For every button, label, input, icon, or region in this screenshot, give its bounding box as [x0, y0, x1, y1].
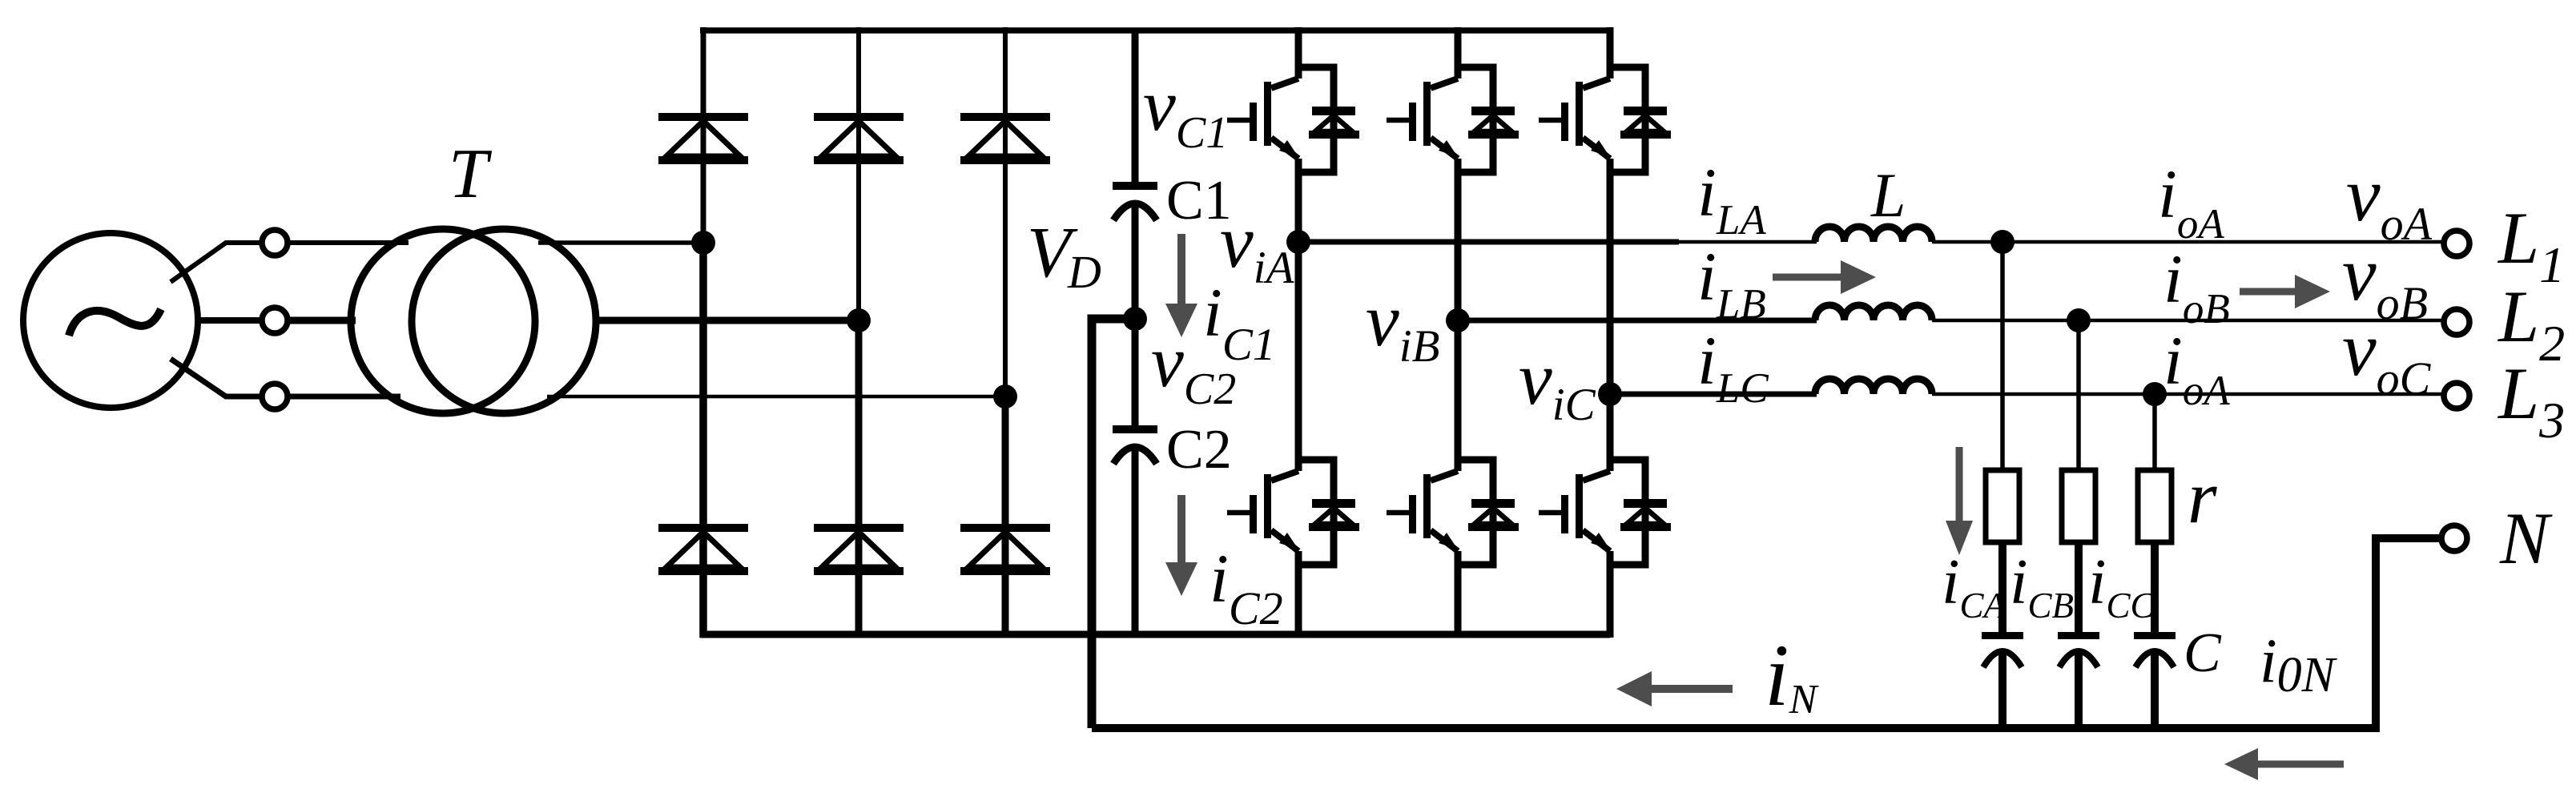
capacitor CA — [1982, 632, 2023, 667]
svg-text:ioA: ioA — [2163, 322, 2230, 414]
svg-text:iC2: iC2 — [1210, 540, 1283, 634]
terminal N — [2441, 525, 2467, 551]
neutral bus — [1092, 724, 2376, 732]
wire capacitor CB to bus — [2075, 654, 2083, 730]
wire phase B to inductor — [1458, 318, 1817, 324]
capacitor CB — [2058, 632, 2099, 667]
arrow iN left — [1616, 671, 1733, 706]
svg-text:C: C — [2184, 622, 2222, 684]
inductor LC — [1815, 379, 1932, 394]
IGBT S5 top phase C — [1539, 67, 1671, 172]
svg-text:ioA: ioA — [2158, 155, 2224, 248]
arrow iLB — [1773, 260, 1876, 294]
diode D4 bottom leg1 — [658, 524, 748, 575]
wire transformer to rectifier phase 3 — [547, 395, 1008, 399]
svg-text:iLB: iLB — [1697, 238, 1766, 328]
svg-text:viC: viC — [1519, 337, 1596, 430]
svg-text:iCA: iCA — [1942, 545, 2006, 626]
IGBT S1 top phase A — [1227, 67, 1359, 172]
wire node A down to resistor — [2000, 242, 2005, 473]
svg-text:VD: VD — [1027, 213, 1101, 298]
capacitor C1 — [1113, 182, 1157, 220]
wire phase A to inductor — [1298, 239, 1679, 245]
svg-text:iLC: iLC — [1697, 322, 1769, 412]
inductor LA — [1815, 227, 1932, 242]
node rectifier phase 3 — [993, 384, 1017, 409]
IGBT S6 bottom phase B — [1387, 460, 1519, 565]
wire node B down to resistor — [2076, 320, 2081, 473]
wire node C to L3 terminal — [2155, 392, 2444, 396]
inverter leg C wire — [1607, 27, 1614, 638]
IGBT S4 bottom phase A — [1227, 460, 1359, 565]
diode D5 top leg3 — [960, 113, 1050, 164]
inverter leg A wire — [1295, 27, 1302, 638]
AC source sine symbol — [69, 309, 161, 336]
wire resistor rC to capacitor — [2151, 542, 2159, 633]
wire node B to L2 terminal — [2079, 319, 2444, 323]
capacitor CC — [2134, 632, 2176, 667]
wire C1 to midpoint — [1132, 205, 1139, 319]
inverter leg B wire — [1455, 27, 1462, 638]
capacitor C2 — [1113, 425, 1157, 464]
svg-text:r: r — [2188, 456, 2217, 539]
wire source to terminal 1 — [171, 243, 263, 282]
wire source to terminal 3 — [171, 359, 263, 396]
terminal circle phase 1 — [262, 230, 288, 256]
transformer T secondary circle — [412, 229, 596, 413]
arrow iC2 — [1165, 495, 1197, 596]
svg-text:N: N — [2499, 497, 2553, 579]
wire terminal 3 to transformer — [288, 394, 400, 400]
svg-text:iN: iN — [1765, 626, 1820, 724]
diode D2 bottom leg3 — [960, 524, 1050, 575]
wire node A to L1 terminal — [2002, 240, 2444, 244]
node filter A — [1990, 230, 2015, 254]
wire terminal 1 to transformer — [288, 240, 409, 245]
wire midpoint to C2 — [1132, 319, 1139, 426]
svg-text:viA: viA — [1220, 200, 1295, 293]
svg-text:i0N: i0N — [2260, 626, 2338, 702]
terminal circle phase 3 — [262, 384, 288, 409]
svg-text:viB: viB — [1366, 279, 1439, 372]
node rectifier phase 1 — [691, 231, 715, 255]
wire inductor LC to node — [1932, 392, 2155, 396]
node filter C — [2143, 382, 2167, 406]
rectifier leg 3 wire — [1003, 27, 1008, 396]
wire source to terminal 2 — [199, 317, 263, 324]
node viA — [1286, 230, 1310, 254]
wire transformer to rectifier phase 1 — [538, 240, 706, 245]
svg-text:iCB: iCB — [2010, 545, 2074, 626]
wire inductor LA to node — [1932, 240, 2002, 244]
terminal L1 — [2444, 231, 2469, 256]
svg-text:iLA: iLA — [1697, 154, 1766, 244]
wire capacitor CC to bus — [2151, 654, 2159, 730]
diode D1 top leg1 — [658, 113, 748, 164]
svg-text:L: L — [1870, 160, 1906, 230]
resistor rA — [1986, 470, 2019, 542]
diode D3 top leg2 — [814, 113, 904, 164]
wire inductor LB to node — [1932, 319, 2079, 323]
wire resistor rA to capacitor — [1998, 542, 2006, 633]
transformer T primary circle — [351, 229, 535, 413]
node filter B — [2067, 308, 2091, 332]
node viC — [1598, 382, 1622, 406]
wire node C down to resistor — [2152, 394, 2157, 473]
terminal circle phase 2 — [262, 308, 288, 333]
resistor rC — [2138, 470, 2171, 542]
IGBT S2 bottom phase C — [1539, 460, 1671, 565]
svg-text:iCC: iCC — [2088, 545, 2155, 626]
svg-text:C2: C2 — [1166, 419, 1232, 481]
wire top rail to C1 — [1132, 30, 1139, 183]
inductor LB — [1815, 305, 1932, 320]
wire C2 to bottom rail — [1132, 449, 1139, 635]
arrow i0N left — [2224, 748, 2344, 780]
wire terminal 2 to transformer — [288, 317, 356, 324]
resistor rB — [2062, 470, 2095, 542]
node rectifier phase 2 — [847, 308, 871, 332]
IGBT S3 top phase B — [1387, 67, 1519, 172]
wire phase C to inductor — [1610, 392, 1817, 397]
rectifier leg 2 wire — [856, 27, 861, 320]
diode D6 bottom leg2 — [814, 524, 904, 575]
arrow iCA down — [1946, 447, 1973, 555]
wire transformer to rectifier phase 2 — [596, 317, 862, 324]
arrow ioB — [2240, 275, 2330, 308]
DC top rail — [700, 27, 1610, 34]
neutral riser to N — [2376, 538, 2441, 732]
terminal L3 — [2444, 383, 2469, 409]
wire capacitor CA to bus — [1998, 654, 2006, 730]
svg-text:T: T — [449, 135, 493, 213]
neutral wire from midpoint — [1092, 319, 1135, 728]
arrow iC1 — [1165, 234, 1197, 337]
wire resistor rB to capacitor — [2075, 542, 2083, 633]
node DC midpoint — [1123, 307, 1147, 331]
node viB — [1446, 308, 1470, 332]
svg-text:vC1: vC1 — [1143, 64, 1228, 158]
AC source circle — [23, 233, 198, 408]
rectifier leg 1 wire — [701, 27, 706, 243]
terminal L2 — [2444, 309, 2469, 335]
DC bottom rail — [700, 631, 1610, 638]
